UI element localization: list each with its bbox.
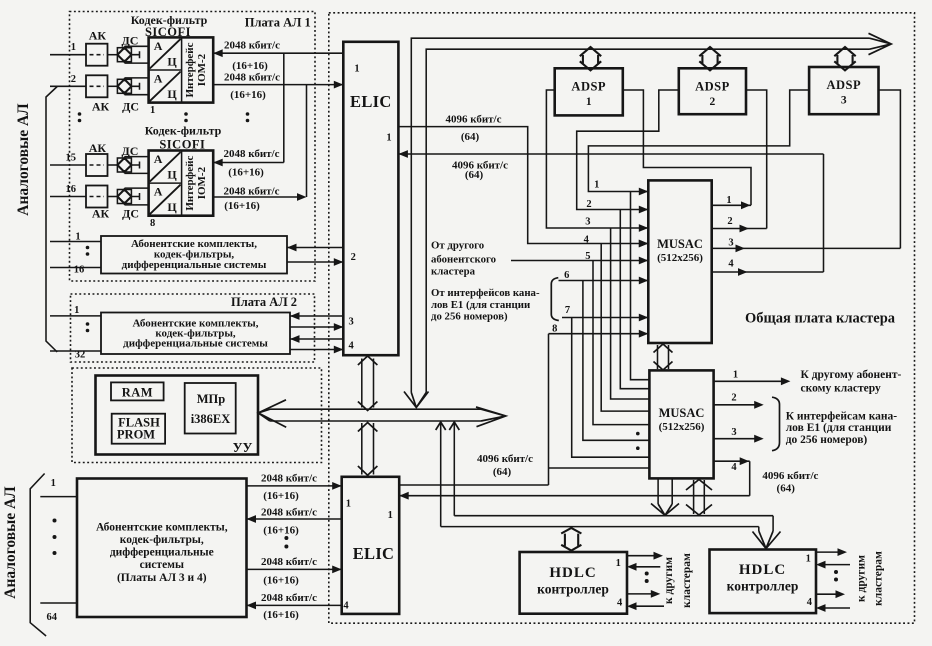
svg-text:МПр: МПр — [197, 392, 226, 406]
svg-text:4096 кбит/с: 4096 кбит/с — [762, 470, 818, 482]
dots block2 rows — [86, 322, 90, 326]
top bus double line with arrow — [411, 38, 869, 392]
wire input5 from other cluster — [511, 260, 648, 262]
wire ELIC to block1 — [287, 247, 343, 249]
svg-text:4096 кбит/с: 4096 кбит/с — [446, 114, 502, 126]
svg-text:1: 1 — [806, 554, 811, 565]
wire block1 to ELIC — [287, 261, 343, 263]
svg-text:2048 кбит/с: 2048 кбит/с — [224, 40, 280, 52]
dotted box Общая плата кластера — [329, 13, 915, 623]
svg-text:Аналоговые АЛ: Аналоговые АЛ — [15, 103, 32, 216]
svg-text:1: 1 — [594, 180, 599, 191]
wire branch to MUSAC2 input — [593, 261, 649, 425]
bracket bottom-left — [30, 474, 46, 637]
svg-text:(64): (64) — [777, 483, 796, 495]
svg-text:ADSP: ADSP — [571, 79, 606, 93]
bracket top-left — [46, 87, 57, 353]
processor box МПр i386EX — [185, 383, 236, 434]
ДС box line 1 (diamond) — [117, 48, 131, 62]
svg-text:7: 7 — [565, 305, 570, 316]
svg-text:4: 4 — [617, 598, 623, 609]
svg-text:4: 4 — [584, 235, 590, 246]
wire subscriber line 15 — [50, 164, 86, 166]
ADSP 3 box — [809, 67, 878, 114]
svg-text:Плата АЛ 2: Плата АЛ 2 — [231, 295, 297, 309]
svg-text:1: 1 — [586, 96, 592, 108]
svg-text:2: 2 — [710, 96, 716, 108]
MUSAC 2 box — [649, 370, 713, 478]
svg-text:1: 1 — [51, 478, 56, 489]
svg-text:IOM-2: IOM-2 — [196, 53, 208, 86]
svg-text:АК: АК — [89, 141, 107, 155]
wire MUSAC1 out3 to ADSP3 — [712, 90, 901, 248]
block Абонентские комплекты (Плата АЛ 2) — [101, 313, 290, 355]
wire row1 АЛ3/4 — [40, 496, 77, 498]
svg-text:1: 1 — [346, 498, 351, 509]
bracket E1 inputs — [551, 278, 559, 321]
arrowhead MUSAC1 input 6 — [639, 277, 649, 285]
SICOFI codec-filter block — [149, 151, 214, 216]
svg-text:контроллер: контроллер — [727, 579, 799, 594]
svg-text:к другим: к другим — [663, 557, 675, 604]
svg-text:кластера: кластера — [431, 266, 476, 278]
svg-text:дифференциальные системы: дифференциальные системы — [123, 338, 268, 350]
svg-text:(16+16): (16+16) — [228, 167, 264, 179]
dots between 2048 rows — [284, 536, 288, 540]
svg-text:ДС: ДС — [122, 207, 139, 221]
wire pair to codec line 1 — [125, 46, 149, 63]
svg-text:3: 3 — [841, 95, 847, 107]
svg-text:системы: системы — [140, 559, 184, 571]
wire row64 АЛ3/4 — [40, 602, 77, 604]
arrowhead MUSAC1 input 5 — [639, 257, 649, 265]
svg-text:К интерфейсам кана-: К интерфейсам кана- — [786, 411, 898, 423]
svg-text:2048 кбит/с: 2048 кбит/с — [261, 556, 317, 568]
svg-text:ADSP: ADSP — [695, 79, 730, 93]
svg-text:2048 кбит/с: 2048 кбит/с — [261, 592, 317, 604]
svg-text:Кодек-фильтр: Кодек-фильтр — [145, 124, 222, 138]
svg-text:(64): (64) — [493, 466, 512, 478]
wire HDLC2 in4 — [825, 607, 850, 609]
svg-text:2: 2 — [727, 216, 732, 227]
wire block2 to ELIC b — [290, 349, 343, 351]
dots HDLC2 — [834, 570, 838, 574]
ДС box line 16 (diamond) — [117, 190, 131, 204]
svg-text:(16+16): (16+16) — [263, 609, 299, 621]
svg-text:А: А — [154, 152, 163, 166]
ELIC 1 box — [343, 42, 398, 355]
arrow bus-ELIC2 — [362, 423, 374, 475]
svg-text:Плата АЛ 1: Плата АЛ 1 — [245, 16, 311, 30]
АК box line 1 — [86, 44, 108, 66]
wire branch to MUSAC2 input — [620, 210, 649, 389]
wire MUSAC1 out4 — [712, 271, 824, 273]
АК box line 2 — [86, 75, 108, 97]
A/D cell — [150, 72, 181, 102]
wire block2 to ELIC a — [290, 326, 343, 328]
HDLC controller 2 box — [710, 550, 817, 614]
FLASH PROM box — [112, 414, 165, 444]
wire branch to MUSAC2 input — [583, 281, 650, 441]
svg-text:2: 2 — [586, 199, 591, 210]
svg-text:1: 1 — [386, 133, 391, 144]
hollow arrow bus-ADSP — [834, 47, 855, 70]
svg-text:кодек-фильтры,: кодек-фильтры, — [120, 534, 204, 546]
wire branch to MUSAC2 input — [611, 228, 650, 399]
wire MUSAC2 out2 — [714, 404, 755, 406]
svg-text:От другого: От другого — [431, 240, 484, 252]
svg-text:4: 4 — [343, 600, 349, 611]
svg-text:Ц: Ц — [167, 54, 177, 68]
svg-text:3: 3 — [728, 238, 733, 249]
svg-text:Аналоговые АЛ: Аналоговые АЛ — [2, 486, 19, 599]
svg-text:1: 1 — [74, 305, 79, 316]
svg-text:Ц: Ц — [167, 168, 177, 182]
wire row32 block2 — [50, 350, 101, 352]
svg-text:скому кластеру: скому кластеру — [801, 382, 881, 394]
svg-text:АК: АК — [92, 100, 110, 114]
wire HDLC1 out1 — [627, 555, 654, 557]
wire ДС stub line 2 — [131, 83, 139, 90]
wire MUSAC1 out2 to ADSP2 — [712, 90, 767, 229]
HDLC bus lines — [441, 516, 773, 527]
hollow arrow bus-HDLC1 — [561, 528, 581, 551]
svg-text:4: 4 — [348, 340, 354, 351]
wire input8 vertical from ELIC2 — [399, 334, 649, 485]
wire HDLC1 out4 — [627, 593, 651, 595]
block Абонентские комплекты (Плата АЛ 1) — [101, 236, 287, 274]
svg-text:ДС: ДС — [121, 34, 138, 48]
АК box line 15 — [86, 154, 108, 176]
arrowhead MUSAC1 input 1 — [639, 188, 649, 196]
dotted box УУ — [72, 368, 322, 463]
wire 2048 АЛ3/4 row — [247, 518, 342, 520]
middle bus right arrowhead — [476, 407, 506, 427]
wire SICOFI-2 output joining — [213, 85, 306, 197]
svg-text:(64): (64) — [461, 131, 480, 143]
svg-text:ADSP: ADSP — [826, 78, 861, 92]
svg-text:лов Е1 (для станции: лов Е1 (для станции — [786, 422, 892, 434]
SICOFI codec-filter block — [149, 37, 214, 102]
svg-text:1: 1 — [354, 64, 359, 75]
svg-text:8: 8 — [150, 218, 155, 229]
ADSP 2 box — [679, 68, 746, 114]
svg-text:(16+16): (16+16) — [263, 525, 299, 537]
arrowhead MUSAC1 input 4 — [639, 240, 649, 248]
wire MUSAC2 out4 to ELIC2 — [399, 461, 750, 496]
svg-text:1: 1 — [726, 195, 731, 206]
wire input2 from ADSP2 — [577, 90, 679, 210]
hollow arrow bus-ADSP — [580, 47, 601, 70]
wire pair to codec line 2 — [125, 78, 149, 95]
middle bus double line — [270, 409, 481, 421]
svg-text:(16+16): (16+16) — [263, 575, 299, 587]
svg-text:6: 6 — [564, 270, 569, 281]
wire HDLC2 out4 — [816, 593, 836, 595]
svg-text:(512x256): (512x256) — [659, 421, 705, 433]
svg-text:3: 3 — [585, 216, 590, 227]
middle bus left arrowhead — [258, 400, 286, 428]
svg-text:АК: АК — [89, 29, 107, 43]
wire subscriber line 2 — [50, 85, 86, 87]
svg-text:HDLC: HDLC — [549, 565, 596, 581]
svg-text:PROM: PROM — [117, 428, 155, 442]
wire HDLC2 out1 — [816, 551, 838, 553]
wire HDLC1 in4 — [636, 605, 664, 607]
svg-text:SICOFI: SICOFI — [159, 137, 205, 151]
wire ДС stub line 15 — [131, 162, 139, 169]
wire subscriber line 1 — [50, 54, 86, 56]
wire input3 from ADSP1 — [546, 90, 648, 228]
svg-text:4: 4 — [731, 462, 737, 473]
wire input7 — [562, 317, 648, 319]
svg-text:Ц: Ц — [167, 87, 177, 101]
svg-text:до 256 номеров): до 256 номеров) — [431, 311, 508, 323]
arrow MUSAC1-MUSAC2 — [658, 345, 669, 369]
svg-text:А: А — [154, 185, 163, 199]
wire branch to MUSAC2 input — [572, 318, 650, 458]
svg-text:Общая плата кластера: Общая плата кластера — [745, 311, 896, 327]
svg-text:АК: АК — [92, 207, 110, 221]
ДС box line 2 (diamond) — [117, 79, 131, 93]
wire pair to codec line 15 — [125, 157, 149, 174]
svg-text:кластерам: кластерам — [873, 551, 885, 606]
svg-text:2048 кбит/с: 2048 кбит/с — [261, 507, 317, 519]
svg-text:4096 кбит/с: 4096 кбит/с — [477, 453, 533, 465]
wire 2048 to SICOFI-1 input — [213, 52, 343, 54]
svg-text:3: 3 — [348, 317, 353, 328]
wire pair to codec line 16 — [125, 188, 149, 205]
svg-text:4: 4 — [728, 259, 734, 270]
wire ELIC to block2 b — [290, 338, 343, 340]
arrow MUSAC2-HDLC bus bidir — [694, 480, 705, 514]
wire subscriber line 16 — [50, 196, 86, 198]
wire SICOFI-1 output to ELIC — [213, 84, 343, 86]
wire row16 block1 — [50, 267, 101, 269]
svg-text:(512x256): (512x256) — [657, 252, 703, 264]
svg-text:2: 2 — [731, 392, 736, 403]
svg-text:1: 1 — [71, 42, 76, 53]
svg-text:i386EX: i386EX — [191, 412, 231, 426]
wire 4096 MUSAC1 out4 to ELIC1 — [398, 154, 823, 272]
arrow MUSAC2 down to HDLC bus — [658, 479, 672, 504]
wire row1 block1 — [50, 241, 101, 243]
svg-text:1: 1 — [150, 105, 155, 116]
svg-text:ДС: ДС — [122, 100, 139, 114]
wire АК-ДС line 2 — [108, 85, 118, 87]
A/D cell — [150, 152, 181, 182]
svg-text:к другим: к другим — [856, 555, 868, 602]
MUSAC 1 box — [648, 180, 711, 343]
wire input6 — [559, 280, 649, 282]
svg-text:дифференциальные системы: дифференциальные системы — [122, 259, 267, 271]
svg-text:ELIC: ELIC — [350, 92, 392, 111]
wire branch to MUSAC2 input — [631, 192, 650, 380]
arrowhead MUSAC1 input 8 — [639, 330, 649, 338]
arrowhead MUSAC1 input 7 — [639, 314, 649, 322]
HDLC bus risers from middle bus — [441, 423, 455, 527]
hollow arrow bus-ADSP — [699, 47, 720, 70]
svg-text:ELIC: ELIC — [353, 544, 395, 563]
dotted box Плата АЛ 1 — [70, 12, 316, 282]
svg-text:(16+16): (16+16) — [232, 60, 268, 72]
wire MUSAC2 out3 — [714, 438, 755, 440]
wire ДС stub line 1 — [131, 51, 139, 58]
svg-text:64: 64 — [47, 612, 58, 623]
block Абонентские комплекты Платы АЛ 3 и 4 — [77, 479, 247, 618]
wire branch to SICOFI-2 input — [213, 53, 284, 162]
ADSP 1 box — [555, 68, 623, 115]
wire 4096 ELIC1 out to MUSAC1 in4 — [398, 127, 648, 244]
svg-text:до 256 номеров): до 256 номеров) — [786, 434, 868, 446]
svg-text:HDLC: HDLC — [739, 562, 786, 578]
wire АК-ДС line 1 — [108, 54, 118, 56]
svg-text:16: 16 — [66, 184, 77, 195]
wire 2048 АЛ3/4 row — [247, 568, 342, 570]
svg-text:RAM: RAM — [122, 386, 153, 400]
wire 2048 АЛ3/4 row — [247, 485, 342, 487]
control unit box УУ — [96, 376, 259, 455]
svg-text:Абонентские комплекты,: Абонентские комплекты, — [96, 522, 228, 534]
svg-text:1: 1 — [388, 510, 393, 521]
svg-text:(16+16): (16+16) — [230, 89, 266, 101]
wire HDLC2 in1 — [825, 564, 850, 566]
wire АК-ДС line 15 — [108, 164, 118, 166]
svg-text:УУ: УУ — [233, 440, 253, 455]
wire MUSAC2 out1 — [714, 380, 781, 382]
svg-text:А: А — [154, 72, 163, 86]
svg-text:(Платы АЛ 3 и 4): (Платы АЛ 3 и 4) — [117, 572, 207, 584]
dots column АЛ3/4 — [53, 519, 57, 523]
svg-text:1: 1 — [616, 558, 621, 569]
svg-text:кластерам: кластерам — [681, 553, 693, 608]
ELIC 2 box — [342, 477, 400, 614]
svg-text:MUSAC: MUSAC — [657, 237, 703, 251]
svg-text:2048 кбит/с: 2048 кбит/с — [224, 186, 280, 198]
wire ELIC to block2 a — [290, 315, 343, 317]
svg-text:4: 4 — [807, 597, 813, 608]
wire input1 from ADSP3 — [588, 90, 809, 192]
arrow ELIC1-bus — [362, 359, 374, 408]
svg-text:2048 кбит/с: 2048 кбит/с — [224, 72, 280, 84]
wire row1 block2 — [50, 315, 101, 317]
svg-text:лов Е1 (для станции: лов Е1 (для станции — [431, 299, 530, 311]
АК box line 16 — [86, 186, 108, 208]
wire ДС stub line 16 — [131, 193, 139, 200]
HDLC bus drop to HDLC2 — [759, 516, 773, 531]
svg-text:MUSAC: MUSAC — [659, 406, 705, 420]
svg-text:2: 2 — [351, 252, 356, 263]
RAM box — [111, 382, 164, 400]
svg-text:2048 кбит/с: 2048 кбит/с — [224, 148, 280, 160]
dotted box Плата АЛ 2 — [71, 294, 315, 362]
dots HDLC1 — [645, 572, 649, 576]
svg-text:А: А — [154, 39, 163, 53]
svg-text:IOM-2: IOM-2 — [196, 166, 208, 199]
svg-text:контроллер: контроллер — [537, 582, 609, 597]
svg-text:(16+16): (16+16) — [263, 490, 299, 502]
dots MUSAC2 inputs — [636, 432, 640, 436]
svg-text:2048 кбит/с: 2048 кбит/с — [261, 473, 317, 485]
arrowhead MUSAC1 input 2 — [639, 206, 649, 214]
ДС box line 15 (diamond) — [117, 158, 131, 172]
wire 2048 АЛ3/4 row — [247, 604, 342, 606]
svg-text:1: 1 — [733, 370, 738, 381]
svg-text:Интерфейс: Интерфейс — [184, 42, 196, 97]
svg-text:(16+16): (16+16) — [224, 200, 260, 212]
svg-text:(64): (64) — [465, 169, 484, 181]
wire MUSAC1 out1 to ADSP1 — [623, 90, 751, 205]
svg-text:3: 3 — [731, 427, 736, 438]
dots between АК groups — [78, 112, 82, 116]
svg-text:16: 16 — [74, 265, 85, 276]
HDLC controller 1 box — [520, 552, 627, 614]
wire АК-ДС line 16 — [108, 196, 118, 198]
bracket E1 outputs — [772, 397, 780, 451]
svg-text:2: 2 — [71, 74, 76, 85]
svg-text:Ц: Ц — [167, 200, 177, 214]
svg-text:дифференциальные: дифференциальные — [110, 547, 214, 559]
wire branch to MUSAC2 input — [601, 244, 649, 412]
svg-text:К другому абонент-: К другому абонент- — [801, 369, 902, 381]
dots block1 rows — [86, 246, 90, 250]
A/D cell — [150, 39, 181, 69]
A/D cell — [150, 185, 181, 215]
svg-text:абонентского: абонентского — [431, 254, 496, 266]
svg-text:ДС: ДС — [121, 144, 138, 158]
svg-text:От интерфейсов кана-: От интерфейсов кана- — [431, 287, 540, 299]
svg-text:Интерфейс: Интерфейс — [184, 155, 196, 210]
top bus down arrowhead — [404, 392, 429, 408]
svg-text:15: 15 — [66, 153, 77, 164]
wire HDLC1 in1 — [636, 566, 660, 568]
arrowhead MUSAC1 input 3 — [639, 224, 649, 232]
